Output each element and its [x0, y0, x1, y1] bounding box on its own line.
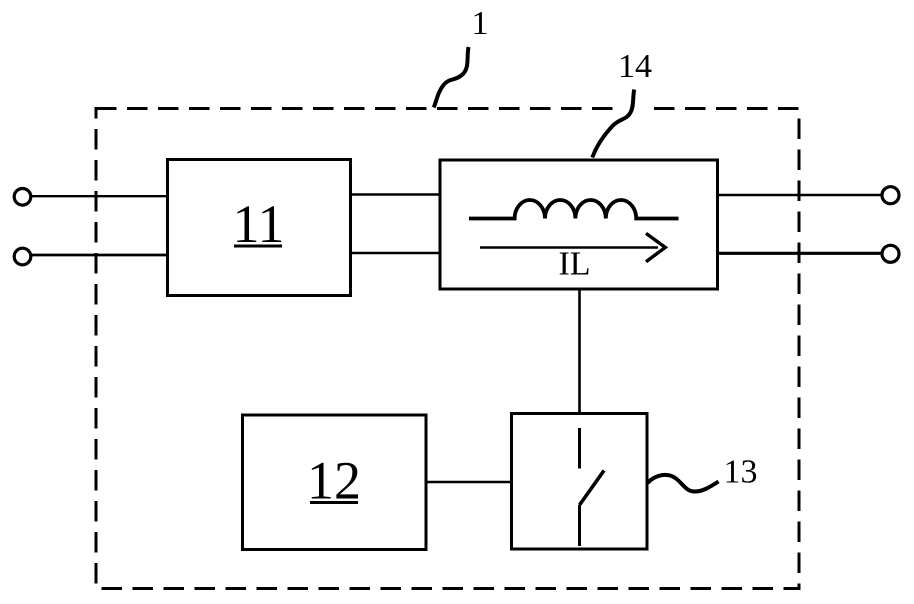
svg-text:14: 14 [618, 48, 652, 85]
leader squiggle for label 14 [592, 90, 634, 158]
leader squiggle for label 13 [648, 475, 719, 492]
block 13 (switch block) [512, 414, 648, 550]
wire top block 11 to block 14 [351, 193, 441, 196]
underline of label 11 [234, 245, 282, 248]
dashed enclosure border (device 1) [96, 109, 799, 589]
block 11 [168, 160, 351, 296]
wire block 14 to right-bottom terminal [718, 252, 882, 255]
current direction arrow shaft [480, 246, 658, 248]
switch blade [580, 471, 605, 506]
terminal left top [14, 189, 31, 206]
wire block 14 to right-top terminal [718, 194, 882, 196]
block 12 [243, 415, 427, 550]
wire left-bottom terminal to block 11 [31, 254, 168, 257]
switch lower contact lead [578, 505, 581, 546]
svg-text:1: 1 [472, 5, 489, 42]
terminal right top [882, 187, 899, 204]
wire block 12 to block 13 [426, 481, 512, 484]
current direction arrow head [646, 233, 665, 261]
gap in dashed border at squiggle 14 crossing [618, 106, 645, 112]
wire bottom block 11 to block 14 [351, 252, 441, 255]
underline of label 12 [310, 501, 358, 504]
svg-text:13: 13 [724, 454, 758, 491]
wire left-top terminal to block 11 [31, 195, 168, 197]
terminal left bottom [14, 248, 31, 265]
block 14 (inductor block) [440, 160, 718, 289]
svg-text:IL: IL [558, 246, 590, 283]
terminal right bottom [882, 245, 899, 262]
leader squiggle for label 1 [434, 47, 469, 108]
wire block 14 down to block 13 [578, 289, 581, 414]
switch upper contact lead [578, 428, 581, 469]
inductor L winding [469, 200, 679, 219]
